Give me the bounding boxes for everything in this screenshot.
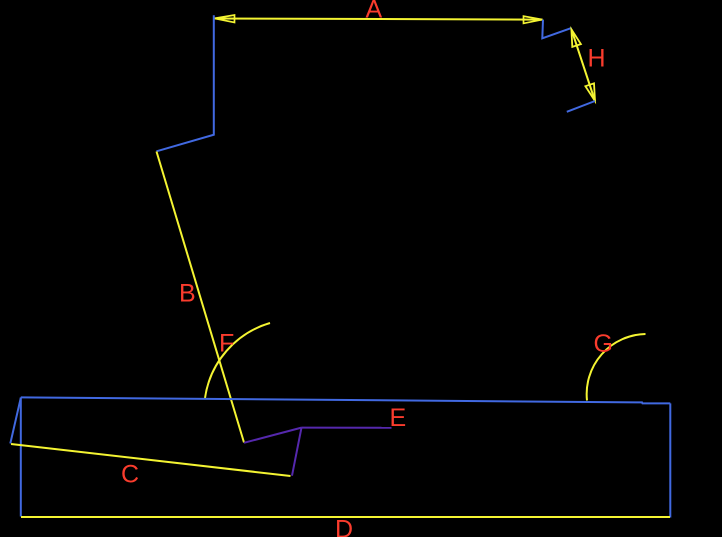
svg-text:F: F [219, 330, 234, 358]
svg-text:D: D [335, 516, 353, 537]
wire: line C [11, 444, 291, 476]
svg-text:C: C [121, 461, 139, 489]
wire: dimension line A shaft [215, 19, 543, 20]
svg-text:E: E [390, 404, 407, 432]
svg-text:B: B [179, 279, 196, 307]
node A: left arrowhead [215, 15, 235, 23]
wire: line B [157, 152, 245, 443]
wire: line D [21, 516, 670, 518]
wire: purple dart right edge [292, 428, 302, 476]
svg-text:A: A [366, 0, 383, 24]
wire: flap diagonal [10, 398, 20, 444]
wire: purple dart left diagonal [244, 428, 302, 443]
wire: bottom quad left edge [20, 397, 22, 516]
wire: blue top-left outline [157, 15, 214, 151]
wire: bottom quad top edge [21, 397, 671, 403]
wire: bottom quad right edge [669, 403, 671, 517]
svg-text:G: G [594, 330, 613, 358]
node H: top arrowhead [571, 29, 581, 47]
node H: bottom arrowhead [585, 83, 595, 101]
node A: right arrowhead [524, 16, 543, 23]
wire: blue segment below H [567, 101, 595, 112]
svg-text:H: H [588, 45, 606, 73]
wire: dimension line H shaft [571, 29, 595, 101]
wire: arc G [587, 334, 646, 401]
wire: arc F [205, 323, 270, 398]
wire: purple line E [302, 427, 392, 429]
wire: blue top-right outline [542, 20, 571, 39]
